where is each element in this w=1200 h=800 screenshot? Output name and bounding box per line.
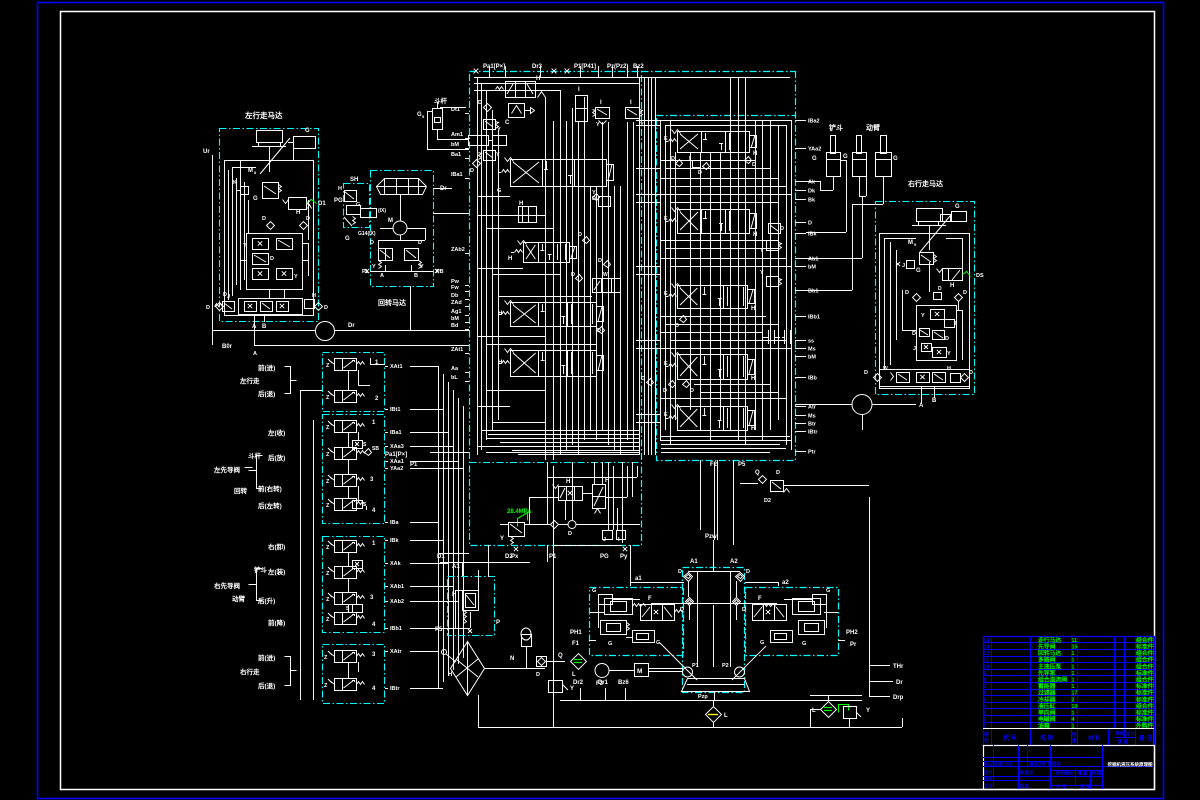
pilot group 4 enclosure (right travel pilot) bbox=[323, 645, 385, 704]
svg-text:多路阀: 多路阀 bbox=[1038, 656, 1056, 664]
relief Q7 assembly right of box bbox=[759, 476, 767, 484]
svg-text:G: G bbox=[893, 156, 898, 162]
RTM check diamonds mid bbox=[913, 294, 921, 302]
cylinder piping bbox=[833, 177, 835, 190]
svg-text:XAt1: XAt1 bbox=[390, 364, 403, 370]
green wire at RTM pilot bbox=[963, 272, 971, 277]
boom cylinder G1 bbox=[857, 136, 862, 154]
svg-text:ZAb2: ZAb2 bbox=[451, 247, 465, 253]
right bank main valve R1 (bucket) bbox=[678, 132, 750, 153]
svg-text:后(放): 后(放) bbox=[268, 453, 285, 462]
wire Ur stub bbox=[212, 155, 214, 330]
svg-text:G: G bbox=[253, 196, 258, 202]
pilot group4 wires bbox=[348, 662, 350, 678]
check square D16 bbox=[537, 657, 547, 667]
svg-text:右先导阀: 右先导阀 bbox=[213, 581, 241, 590]
svg-text:1: 1 bbox=[1072, 664, 1075, 670]
svg-text:Ms: Ms bbox=[808, 414, 816, 420]
svg-text:2: 2 bbox=[984, 717, 987, 723]
svg-text:D: D bbox=[598, 258, 602, 264]
svg-text:D: D bbox=[306, 216, 310, 222]
svg-text:设计: 设计 bbox=[984, 769, 993, 776]
svg-text:H: H bbox=[296, 210, 300, 216]
circle F3 bbox=[595, 664, 609, 678]
RTM brake valve G7 bbox=[920, 253, 934, 265]
svg-text:E: E bbox=[664, 216, 668, 222]
left travel motor enclosure box bbox=[220, 129, 319, 322]
svg-text:DS: DS bbox=[976, 273, 984, 279]
svg-text:组合件: 组合件 bbox=[1136, 649, 1154, 657]
svg-text:标准件: 标准件 bbox=[1135, 643, 1154, 651]
svg-text:Y: Y bbox=[866, 708, 870, 714]
pump outlet lines bbox=[484, 668, 545, 670]
pilot valve Z7 bbox=[335, 541, 343, 553]
svg-text:Y: Y bbox=[420, 264, 424, 270]
pilot group2 wires bbox=[348, 432, 350, 447]
svg-text:D: D bbox=[969, 370, 973, 376]
pilot valve Z9b bbox=[335, 593, 343, 605]
svg-text:H: H bbox=[338, 186, 342, 192]
svg-text:量: 量 bbox=[1072, 737, 1077, 744]
svg-text:B0r: B0r bbox=[222, 344, 233, 350]
svg-text:P5: P5 bbox=[738, 462, 746, 468]
svg-text:Dr: Dr bbox=[348, 323, 355, 329]
svg-text:标准件: 标准件 bbox=[1135, 709, 1154, 717]
pump swash trapezoid bbox=[682, 679, 750, 692]
wires inside left travel motor bbox=[232, 167, 234, 296]
a1 a2 stub lines bbox=[630, 582, 684, 584]
svg-text:E: E bbox=[664, 412, 668, 418]
svg-text:ss: ss bbox=[808, 339, 814, 345]
svg-text:13: 13 bbox=[984, 645, 990, 651]
tank filter L1 yellow bbox=[706, 707, 722, 723]
pilot valve Z9a bbox=[335, 567, 343, 579]
inter-valve checks row1 bbox=[676, 160, 683, 167]
svg-text:PG: PG bbox=[334, 198, 343, 204]
pump line check circle D8 bbox=[568, 521, 576, 529]
regulator left internals bbox=[599, 595, 613, 605]
pump bottom tank line bbox=[714, 691, 716, 700]
svg-text:G: G bbox=[802, 641, 806, 647]
main control valve enclosure (left bank) bbox=[470, 72, 642, 546]
svg-text:单向阀: 单向阀 bbox=[1038, 709, 1056, 717]
svg-text:E: E bbox=[664, 291, 668, 297]
svg-text:D: D bbox=[370, 240, 374, 246]
pump diagonal linkages bbox=[660, 643, 697, 680]
svg-text:P1: P1 bbox=[410, 462, 418, 468]
svg-text:签字: 签字 bbox=[1051, 761, 1061, 768]
mid wires vertical cluster bbox=[547, 462, 549, 524]
mid valve Hsb bbox=[559, 487, 583, 501]
svg-text:G: G bbox=[497, 188, 501, 194]
right bank main valve R3 (arm2) bbox=[678, 286, 748, 309]
svg-text:D: D bbox=[536, 672, 540, 678]
svg-text:Y: Y bbox=[596, 122, 600, 128]
svg-text:Y: Y bbox=[760, 270, 764, 276]
corridor crossing horizontals bbox=[636, 120, 660, 122]
svg-text:W: W bbox=[603, 272, 608, 278]
svg-text:YAa2: YAa2 bbox=[390, 466, 403, 472]
svg-text:M: M bbox=[388, 218, 393, 224]
servo check D10 bbox=[733, 598, 741, 606]
svg-text:D: D bbox=[912, 331, 916, 337]
svg-text:M: M bbox=[637, 668, 642, 675]
shuttle valve row bottom bbox=[239, 299, 303, 315]
accumulator N1 bbox=[521, 628, 531, 640]
svg-text:单件: 单件 bbox=[1115, 730, 1124, 737]
svg-text:W: W bbox=[883, 366, 888, 372]
G14 block bbox=[361, 209, 377, 218]
svg-text:C: C bbox=[505, 120, 510, 126]
swing relief Y12 bbox=[379, 249, 393, 261]
svg-text:a2: a2 bbox=[782, 580, 789, 586]
pilot valve Z11 bbox=[335, 651, 343, 663]
pilot group3 wires bbox=[348, 552, 350, 566]
lines joining regulator to box bottoms bbox=[630, 545, 632, 582]
left travel motor inner frame bbox=[225, 161, 314, 316]
svg-text:更改文件号: 更改文件号 bbox=[1029, 761, 1052, 768]
brake valve G8 bbox=[263, 183, 279, 199]
svg-text:总计: 总计 bbox=[1126, 730, 1135, 737]
svg-text:Y: Y bbox=[921, 313, 925, 319]
title block horizontals bbox=[983, 757, 1102, 759]
svg-text:重量: 重量 bbox=[1078, 770, 1088, 777]
svg-text:D: D bbox=[698, 170, 702, 176]
right bank main valve R5 (spare) bbox=[678, 407, 748, 431]
svg-text:P1[P41]: P1[P41] bbox=[574, 64, 596, 70]
green link at L8 bbox=[839, 705, 849, 713]
svg-text:序: 序 bbox=[984, 731, 989, 738]
svg-text:XAb1: XAb1 bbox=[390, 584, 404, 590]
svg-text:1: 1 bbox=[984, 724, 987, 730]
unloading valve H top-left bbox=[506, 82, 536, 98]
swing wires bbox=[378, 240, 425, 242]
shuttle S2 bbox=[353, 441, 363, 449]
svg-text:Ak: Ak bbox=[808, 180, 816, 186]
shuttle S4 bbox=[353, 561, 363, 569]
motor box M bbox=[635, 664, 649, 677]
svg-text:挖掘机液压系统原理图: 挖掘机液压系统原理图 bbox=[1108, 761, 1153, 768]
RTM shuttle row bbox=[880, 370, 970, 387]
svg-text:先导阀: 先导阀 bbox=[1038, 643, 1056, 651]
swing relief Y10 bbox=[405, 249, 419, 261]
regulator crossing line bbox=[651, 603, 777, 605]
svg-text:右行走: 右行走 bbox=[239, 667, 260, 676]
svg-text:IBa1: IBa1 bbox=[451, 172, 463, 178]
left column riser wires bbox=[440, 107, 466, 109]
svg-text:Ms: Ms bbox=[808, 347, 816, 353]
svg-text:后(左转): 后(左转) bbox=[258, 501, 282, 510]
pump inlet diagonal circles bbox=[683, 667, 693, 677]
right bank bottom exit bundle bbox=[661, 436, 790, 438]
svg-text:Pa1[P×]: Pa1[P×] bbox=[385, 452, 407, 458]
svg-text:标准件: 标准件 bbox=[1135, 689, 1154, 697]
svg-text:重 量: 重 量 bbox=[1118, 738, 1129, 745]
svg-text:11: 11 bbox=[984, 658, 990, 664]
svg-text:先导泵: 先导泵 bbox=[1038, 669, 1056, 677]
svg-text:Fw: Fw bbox=[451, 285, 459, 291]
svg-text:M: M bbox=[248, 168, 253, 174]
svg-text:组合件: 组合件 bbox=[1136, 636, 1154, 644]
bottom tank bus bbox=[478, 727, 902, 729]
svg-text:Drp: Drp bbox=[893, 695, 904, 701]
corridor verticals between valve banks bbox=[644, 77, 646, 455]
svg-text:IBa: IBa bbox=[390, 520, 400, 526]
svg-text:G: G bbox=[345, 236, 350, 242]
svg-text:F: F bbox=[648, 596, 652, 602]
svg-text:走行马达: 走行马达 bbox=[1037, 636, 1061, 644]
svg-text:PG: PG bbox=[600, 554, 609, 560]
pilot group 2 enclosure (left pilot manifold) bbox=[323, 415, 385, 524]
svg-text:外购件: 外购件 bbox=[1136, 722, 1154, 730]
pilot group 1 enclosure (left travel pilot) bbox=[323, 353, 385, 412]
svg-text:Q: Q bbox=[558, 653, 563, 659]
svg-text:前(降): 前(降) bbox=[268, 618, 285, 627]
regulator right piping bbox=[826, 604, 828, 628]
svg-text:bM: bM bbox=[808, 355, 816, 361]
svg-text:ZAd: ZAd bbox=[451, 300, 462, 306]
svg-text:过滤器: 过滤器 bbox=[1038, 689, 1056, 697]
svg-text:9: 9 bbox=[984, 671, 987, 677]
right-side external port labels bbox=[795, 120, 806, 122]
pilot relief H4p bbox=[463, 591, 479, 611]
svg-text:G: G bbox=[843, 154, 848, 160]
bucket cylinder G2 bbox=[831, 136, 836, 154]
right drain riser bbox=[869, 497, 871, 697]
svg-text:15: 15 bbox=[1072, 645, 1078, 651]
svg-text:12: 12 bbox=[984, 651, 990, 657]
regulator centre enclosure bbox=[683, 568, 745, 693]
svg-text:YAa2: YAa2 bbox=[808, 147, 821, 153]
svg-text:Ag1: Ag1 bbox=[451, 309, 461, 315]
svg-text:B: B bbox=[932, 398, 937, 404]
svg-text:J: J bbox=[913, 346, 916, 352]
svg-text:Bz6: Bz6 bbox=[618, 680, 629, 686]
shuttle S5 bbox=[353, 605, 363, 613]
svg-text:11: 11 bbox=[1072, 638, 1078, 644]
checks below R4 bbox=[647, 379, 654, 386]
svg-text:D1: D1 bbox=[437, 554, 445, 560]
counterbalance valve block bbox=[247, 234, 303, 290]
RTM motor body bbox=[917, 209, 943, 222]
svg-text:组合件: 组合件 bbox=[1136, 656, 1154, 664]
svg-text:N: N bbox=[510, 656, 514, 662]
right bank top cyan line bbox=[642, 71, 796, 73]
svg-text:主液压泵: 主液压泵 bbox=[1038, 662, 1061, 670]
svg-text:Ur: Ur bbox=[203, 149, 210, 155]
filter L5 bbox=[571, 654, 587, 670]
svg-text:P2: P2 bbox=[722, 663, 729, 669]
mid pressure bus bbox=[524, 524, 550, 526]
svg-text:B: B bbox=[262, 324, 267, 330]
main valve V3 (arm) bbox=[511, 303, 597, 327]
top bus lines bbox=[474, 77, 790, 79]
swing ports bbox=[370, 271, 433, 273]
svg-text:Q: Q bbox=[755, 470, 760, 476]
svg-text:冷却器: 冷却器 bbox=[1038, 695, 1056, 703]
svg-text:G: G bbox=[760, 640, 764, 646]
svg-text:组合件: 组合件 bbox=[1136, 662, 1154, 670]
svg-text:SB: SB bbox=[372, 446, 379, 452]
bus join to main block bbox=[438, 366, 440, 553]
pilot-to-valve bus wires bbox=[410, 366, 438, 368]
svg-text:Pz(Pz2): Pz(Pz2) bbox=[607, 64, 628, 70]
svg-text:IBb1: IBb1 bbox=[808, 315, 820, 321]
svg-text:D: D bbox=[776, 470, 780, 476]
svg-text:组合溢流阀: 组合溢流阀 bbox=[1038, 676, 1067, 684]
centre channel wires bbox=[688, 581, 690, 597]
svg-text:左先导阀: 左先导阀 bbox=[213, 465, 241, 474]
svg-text:Y: Y bbox=[496, 152, 500, 158]
svg-text:8: 8 bbox=[984, 678, 987, 684]
svg-text:后(退): 后(退) bbox=[258, 389, 275, 398]
title block frame bbox=[984, 746, 1155, 790]
SH pilot enclosure bbox=[344, 184, 370, 228]
svg-text:IBb1: IBb1 bbox=[390, 626, 402, 632]
svg-text:5: 5 bbox=[984, 697, 987, 703]
svg-text:E: E bbox=[664, 136, 668, 142]
tank circle Dr bbox=[316, 322, 335, 341]
motor swash plate slash bbox=[260, 138, 290, 174]
svg-text:Atr: Atr bbox=[808, 405, 817, 411]
svg-text:G: G bbox=[812, 156, 817, 162]
svg-text:P: P bbox=[496, 620, 500, 626]
svg-text:Pa1[P×]: Pa1[P×] bbox=[483, 64, 505, 70]
boom cylinder G4 bbox=[881, 136, 887, 154]
svg-text:4: 4 bbox=[1072, 717, 1075, 723]
svg-text:4: 4 bbox=[984, 704, 987, 710]
check Dm top bbox=[484, 104, 492, 112]
swing motor enclosure bbox=[371, 171, 434, 287]
pilot valve Z6b bbox=[335, 475, 343, 487]
svg-text:bM: bM bbox=[808, 265, 816, 271]
svg-text:IBtr: IBtr bbox=[808, 430, 818, 436]
svg-text:A: A bbox=[380, 273, 384, 279]
check diamonds at valve row ends bbox=[216, 303, 224, 311]
svg-text:标准件: 标准件 bbox=[1135, 715, 1154, 723]
svg-text:D1: D1 bbox=[318, 201, 326, 207]
svg-text:L: L bbox=[812, 708, 816, 714]
svg-text:1: 1 bbox=[1072, 671, 1075, 677]
svg-text:左行走: 左行走 bbox=[239, 376, 260, 385]
svg-text:D2: D2 bbox=[505, 554, 513, 560]
svg-text:J: J bbox=[603, 537, 606, 543]
svg-text:P5: P5 bbox=[435, 627, 443, 633]
svg-text:PH1: PH1 bbox=[570, 630, 582, 636]
pilot valve Z10 bbox=[335, 613, 343, 625]
wire from swing to center bbox=[400, 235, 402, 240]
svg-text:L: L bbox=[572, 672, 576, 678]
svg-text:D2: D2 bbox=[764, 498, 771, 504]
mid valve HsA tall bbox=[593, 485, 606, 509]
tank circle right bbox=[852, 395, 872, 415]
svg-text:蓄能器: 蓄能器 bbox=[1038, 682, 1056, 690]
svg-text:动臂: 动臂 bbox=[232, 594, 246, 603]
svg-text:D: D bbox=[262, 216, 266, 222]
pilot valve Z5 bbox=[335, 499, 343, 511]
RTM swash slash bbox=[920, 216, 950, 252]
svg-text:Pzw: Pzw bbox=[705, 534, 717, 540]
svg-text:D: D bbox=[270, 256, 274, 262]
pilot group1 wires bbox=[348, 370, 350, 390]
svg-text:XAk: XAk bbox=[390, 561, 402, 567]
wire bus below travel motor bbox=[212, 330, 316, 332]
svg-text:F2: F2 bbox=[710, 462, 718, 468]
left bank internal horizontals bbox=[477, 196, 510, 198]
check D14 bbox=[604, 261, 611, 268]
relief pair Y5 bbox=[626, 108, 640, 119]
svg-text:组合件: 组合件 bbox=[1136, 702, 1154, 710]
left bank bottom exit bundle bbox=[482, 430, 639, 432]
svg-text:Btr: Btr bbox=[808, 422, 817, 428]
svg-text:(IX): (IX) bbox=[378, 208, 386, 214]
svg-text:a1: a1 bbox=[635, 576, 642, 582]
svg-text:电磁阀: 电磁阀 bbox=[1038, 715, 1056, 723]
svg-text:Db: Db bbox=[451, 293, 459, 299]
inner cyan separator bbox=[470, 462, 642, 464]
check diamonds Dm Dn bbox=[267, 222, 275, 230]
pilot label brackets bbox=[249, 456, 263, 471]
G4 block bbox=[294, 137, 316, 149]
svg-text:PB: PB bbox=[436, 269, 444, 275]
pilot valve H3 bbox=[593, 279, 621, 293]
svg-text:D: D bbox=[945, 336, 949, 342]
relief Y1z bbox=[599, 197, 611, 207]
RTM pilot valve W-Z bbox=[943, 269, 963, 281]
svg-text:G: G bbox=[305, 128, 310, 134]
check D13 bbox=[680, 316, 687, 323]
svg-text:M: M bbox=[908, 240, 913, 246]
J1 I1 small blocks bbox=[603, 531, 613, 540]
swing manifold bbox=[377, 179, 427, 187]
svg-text:铲斗: 铲斗 bbox=[828, 123, 843, 132]
relief Y13 bbox=[767, 277, 779, 287]
svg-text:D: D bbox=[568, 531, 572, 537]
main valve V4 (travel L) bbox=[511, 351, 597, 377]
svg-text:H: H bbox=[950, 283, 954, 289]
filter L8 green bbox=[821, 702, 837, 718]
svg-text:代 号: 代 号 bbox=[1002, 734, 1017, 742]
svg-text:XAa1: XAa1 bbox=[390, 459, 404, 465]
svg-text:批准: 批准 bbox=[1020, 783, 1029, 790]
svg-text:P1: P1 bbox=[692, 663, 699, 669]
RTM counterbalance block bbox=[917, 306, 957, 361]
svg-text:D: D bbox=[678, 569, 682, 575]
svg-text:IBa2: IBa2 bbox=[808, 119, 820, 125]
svg-text:H: H bbox=[751, 306, 755, 312]
right bank main valve R2 (boom2) bbox=[678, 210, 750, 234]
regulator left piping bbox=[598, 604, 600, 628]
svg-text:XAb2: XAb2 bbox=[390, 599, 404, 605]
wires bottom of main box to pump bbox=[500, 524, 508, 526]
svg-text:动臂: 动臂 bbox=[866, 123, 880, 132]
svg-text:前(进): 前(进) bbox=[258, 363, 275, 372]
regulator right enclosure bbox=[746, 588, 839, 656]
svg-text:Y: Y bbox=[640, 122, 644, 128]
left bank internal verticals bbox=[477, 77, 479, 455]
svg-text:标准件: 标准件 bbox=[1135, 682, 1154, 690]
svg-text:10: 10 bbox=[984, 664, 990, 670]
svg-text:1: 1 bbox=[1072, 678, 1075, 684]
svg-text:后(退): 后(退) bbox=[258, 681, 275, 690]
svg-text:2: 2 bbox=[1072, 697, 1075, 703]
svg-text:G: G bbox=[592, 588, 596, 594]
svg-text:Pr: Pr bbox=[850, 642, 857, 648]
svg-text:标记 处数 分区: 标记 处数 分区 bbox=[983, 761, 1013, 768]
svg-text:H: H bbox=[312, 293, 316, 299]
svg-text:Y: Y bbox=[243, 243, 247, 249]
svg-text:E: E bbox=[664, 361, 668, 367]
